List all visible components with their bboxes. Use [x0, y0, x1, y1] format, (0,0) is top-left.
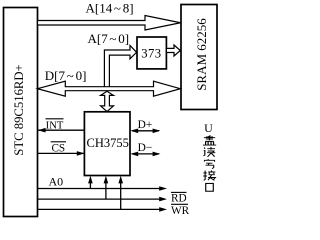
wire RD — [38, 198, 160, 200]
svg-text:373: 373 — [141, 47, 161, 61]
label INT with overbar — [46, 118, 64, 120]
svg-text:RD: RD — [171, 193, 187, 205]
arrowhead A0 branch up — [88, 176, 93, 184]
arrowhead RD right — [159, 197, 167, 202]
wire D+ (double headed) — [132, 130, 159, 132]
svg-text:SRAM 62256: SRAM 62256 — [194, 18, 209, 91]
glyph kou (口) — [206, 183, 214, 191]
svg-text:STC 89C516RD+: STC 89C516RD+ — [12, 64, 26, 155]
label RD with overbar — [171, 191, 187, 193]
svg-text:D−: D− — [138, 142, 153, 154]
SRAM block U2 SRAM 62256 — [181, 5, 217, 110]
svg-text:U: U — [204, 121, 213, 135]
arrowhead WR branch up — [118, 176, 123, 184]
wire INT (CH3755 to MCU) — [38, 129, 84, 131]
svg-text:A0: A0 — [49, 175, 64, 189]
wire A0 — [38, 188, 160, 190]
arrowhead D+ left — [130, 129, 138, 134]
arrowhead D- left — [130, 152, 138, 157]
svg-text:INT: INT — [46, 121, 64, 132]
glyph xie (写) — [204, 160, 214, 169]
arrowhead RD branch up — [104, 176, 109, 184]
svg-text:CS: CS — [51, 142, 65, 154]
svg-text:CH3755: CH3755 — [87, 136, 129, 150]
arrowhead D+ right — [153, 129, 161, 134]
USB controller block U4 CH3755 — [84, 112, 130, 176]
arrowhead CS right — [77, 151, 85, 156]
bus D[7~0] (hollow double arrow MCU to SRAM) — [38, 81, 181, 96]
wire WR — [38, 208, 160, 210]
glyph pan (盘) — [203, 135, 216, 145]
bus A[14~8] (hollow arrow MCU to SRAM) — [38, 16, 181, 31]
wire RD branch up to CH3755 — [105, 180, 107, 199]
arrowhead D- right — [153, 152, 161, 157]
arrowhead INT left — [38, 128, 46, 133]
MCU block U1 STC 89C516RD+ — [4, 8, 38, 217]
bus data bus to CH3755 (hollow vertical double arrow) — [101, 91, 114, 111]
glyph du (读) — [203, 147, 215, 157]
bus 373 to SRAM (hollow arrow) — [166, 45, 180, 56]
arrowhead WR right — [159, 207, 167, 212]
glyph jie (接) — [203, 170, 215, 180]
wire A0 branch up to CH3755 — [89, 180, 91, 189]
arrowhead A0 right — [159, 186, 167, 191]
wire D- (double headed) — [132, 153, 159, 155]
wire WR branch up to CH3755 — [120, 180, 122, 209]
label WR with overbar — [171, 203, 188, 205]
bus A[7~0] (branch from data bus up into 373) — [104, 46, 136, 88]
svg-text:D+: D+ — [138, 119, 153, 131]
latch block U3 373 — [137, 37, 166, 69]
wire CS (MCU to CH3755) — [38, 152, 84, 154]
label CS with overbar — [51, 141, 66, 143]
svg-text:WR: WR — [171, 205, 190, 217]
svg-text:A[14~8]: A[14~8] — [86, 1, 134, 16]
